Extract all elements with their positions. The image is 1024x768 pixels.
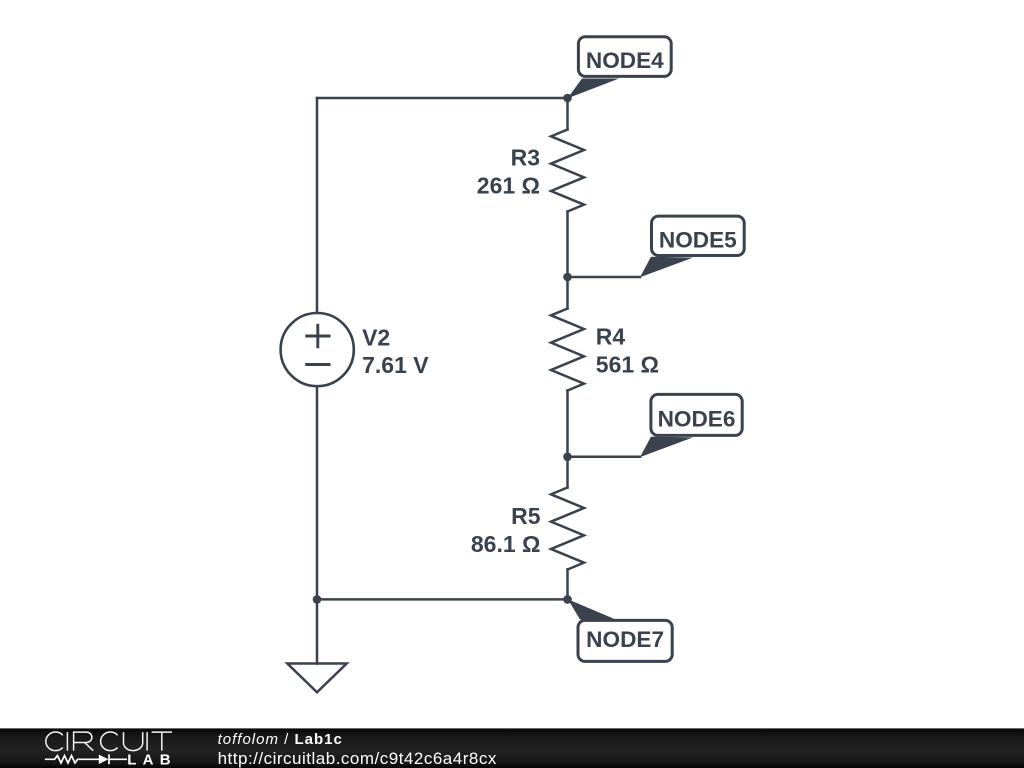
svg-text:V2: V2 [362, 324, 390, 350]
svg-text:R5: R5 [511, 503, 541, 529]
svg-text:toffolom / Lab1c: toffolom / Lab1c [218, 731, 343, 748]
svg-text:R4: R4 [596, 324, 626, 350]
svg-text:R3: R3 [511, 145, 540, 171]
svg-text:NODE5: NODE5 [659, 228, 737, 253]
svg-text:NODE4: NODE4 [586, 48, 664, 73]
svg-text:561 Ω: 561 Ω [596, 352, 659, 378]
svg-text:LAB: LAB [127, 751, 176, 768]
svg-text:7.61 V: 7.61 V [362, 352, 429, 378]
svg-text:86.1 Ω: 86.1 Ω [471, 531, 541, 557]
svg-text:http://circuitlab.com/c9t42c6a: http://circuitlab.com/c9t42c6a4r8cx [218, 749, 497, 768]
svg-text:NODE6: NODE6 [658, 407, 736, 432]
svg-text:NODE7: NODE7 [586, 627, 664, 652]
svg-text:261 Ω: 261 Ω [477, 173, 540, 199]
